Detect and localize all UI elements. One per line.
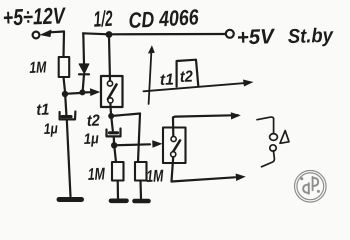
ground (C1) [59, 197, 82, 202]
wire R3 to ground [139, 181, 142, 200]
wire R1 bottom to node A [64, 77, 66, 92]
wire node A down to C1 [65, 97, 66, 116]
wire node A to node B [65, 92, 80, 95]
label 1M (R3) [147, 170, 164, 182]
wire U1a bottom out [109, 103, 112, 114]
arrow into switch U1b [152, 140, 162, 148]
diode D1 [79, 33, 89, 89]
waveform axis horizontal with arrow [144, 80, 254, 92]
node A junction dot [62, 91, 68, 97]
jack J1 contact circle bottom [270, 145, 276, 151]
wire U1b top up and right [173, 115, 238, 136]
node C junction dot [108, 113, 114, 119]
wire node C down to C2 [111, 116, 113, 131]
switch U1a lever [108, 85, 117, 100]
arrow output bottom [236, 174, 246, 182]
arrow into switch U1a [86, 88, 101, 96]
arrow U1b output top [231, 112, 241, 119]
label St.by [288, 28, 333, 46]
wire C2 to node D [113, 137, 115, 143]
logo stamp [295, 171, 327, 203]
label t1 (C1) [37, 104, 49, 115]
capacitor C2 t2 [107, 129, 121, 137]
switch U1a bottom contact circle [108, 98, 113, 103]
label 1u (C2) [84, 133, 98, 146]
terminal supply input circle [33, 32, 40, 39]
wire node C right corner [111, 114, 140, 117]
ground (R3) [135, 199, 149, 204]
node D junction dot [111, 142, 117, 148]
jack J1 contact circle top [270, 134, 278, 141]
waveform axis vertical [148, 45, 155, 104]
node B junction dot (diode bottom) [79, 89, 85, 95]
jack J1 plug triangle [280, 131, 289, 144]
wire bottom to output arrow [172, 177, 236, 181]
label 1/2 CD 4066 [94, 10, 112, 27]
label +5÷12V supply [4, 8, 66, 26]
switch U1b box [163, 128, 186, 164]
ground (R2) [111, 199, 127, 204]
label t2 (waveform) [180, 70, 192, 82]
capacitor C1 t1 [60, 112, 76, 120]
switch U1b lever [172, 141, 180, 154]
wire corner down to R3 [138, 114, 140, 163]
label 1M (R1) [30, 61, 47, 73]
wire node D to switch U1b arrow [114, 144, 150, 145]
waveform t2 pulse [177, 60, 199, 87]
label t1 (waveform) [160, 74, 173, 85]
terminal +5V circle [226, 30, 234, 38]
wire U1b bottom down [172, 157, 174, 181]
switch U1b top contact circle [171, 136, 176, 141]
label t2 (C2) [87, 114, 99, 126]
jack J1 bracket [257, 117, 274, 167]
label +5V [238, 29, 275, 44]
wire node D down to R2 [114, 145, 116, 162]
label 1M (R2) [88, 168, 105, 180]
resistor R2 1M [112, 162, 124, 181]
switch U1a top contact circle [107, 81, 112, 86]
switch U1a box [101, 76, 123, 107]
wire C1 to ground [67, 120, 71, 197]
label CD 4066 [129, 9, 198, 28]
arrow to supply terminal [41, 30, 64, 36]
resistor R3 1M [135, 162, 147, 181]
resistor R1 1M [59, 57, 69, 77]
label 1u (C1) [44, 123, 57, 136]
switch U1b bottom contact circle [171, 152, 176, 157]
wire supply corner down to R1 [62, 32, 65, 58]
wire rail junction down to U1a control [109, 37, 110, 81]
junction dot on top rail [106, 31, 113, 38]
wire R2 to ground [117, 181, 120, 199]
wire top rail to +5V terminal [83, 33, 226, 34]
